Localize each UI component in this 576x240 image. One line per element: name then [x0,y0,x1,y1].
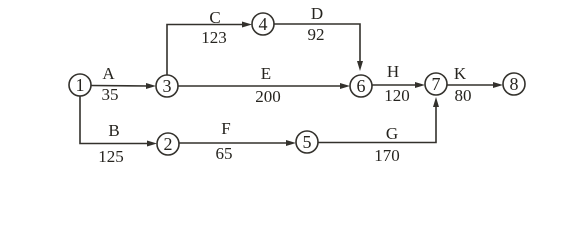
svg-text:E: E [261,64,271,83]
node 1 [69,74,91,96]
svg-text:H: H [387,62,399,81]
arrow F (2 to 5) [179,140,296,146]
svg-text:B: B [108,121,119,140]
svg-text:C: C [209,8,220,27]
svg-text:92: 92 [308,25,325,44]
node 5 [296,131,318,153]
arrow A (1 to 3) [92,83,157,89]
svg-text:35: 35 [102,85,119,104]
svg-text:K: K [454,64,467,83]
node 3 [156,75,178,97]
svg-text:123: 123 [201,28,227,47]
node 8 [503,73,525,95]
svg-text:7: 7 [432,74,441,94]
svg-text:5: 5 [303,132,312,152]
svg-text:8: 8 [510,74,519,94]
arrow B (1 down then right to 2) [80,96,157,147]
svg-text:3: 3 [163,76,172,96]
svg-text:200: 200 [255,87,281,106]
svg-text:6: 6 [357,76,366,96]
svg-text:170: 170 [374,146,400,165]
svg-text:D: D [311,4,323,23]
svg-text:A: A [102,64,115,83]
arrow H (6 to 7) [372,82,425,88]
arrow G (5 right then up to 7) [318,97,439,143]
node 7 [425,73,447,95]
node 2 [157,133,179,155]
svg-text:4: 4 [259,14,268,34]
node 6 [350,75,372,97]
svg-text:2: 2 [164,134,173,154]
arrow E (3 to 6) [178,83,350,89]
svg-text:1: 1 [76,75,85,95]
svg-text:65: 65 [216,144,233,163]
svg-text:F: F [221,119,230,138]
svg-text:80: 80 [455,86,472,105]
arrow K (7 to 8) [447,82,503,88]
arrow D (4 right then down to 6) [274,24,363,71]
svg-text:125: 125 [98,147,124,166]
arrow C (3 up then right to 4) [167,22,252,76]
svg-text:120: 120 [384,86,410,105]
svg-text:G: G [386,124,398,143]
node 4 [252,13,274,35]
